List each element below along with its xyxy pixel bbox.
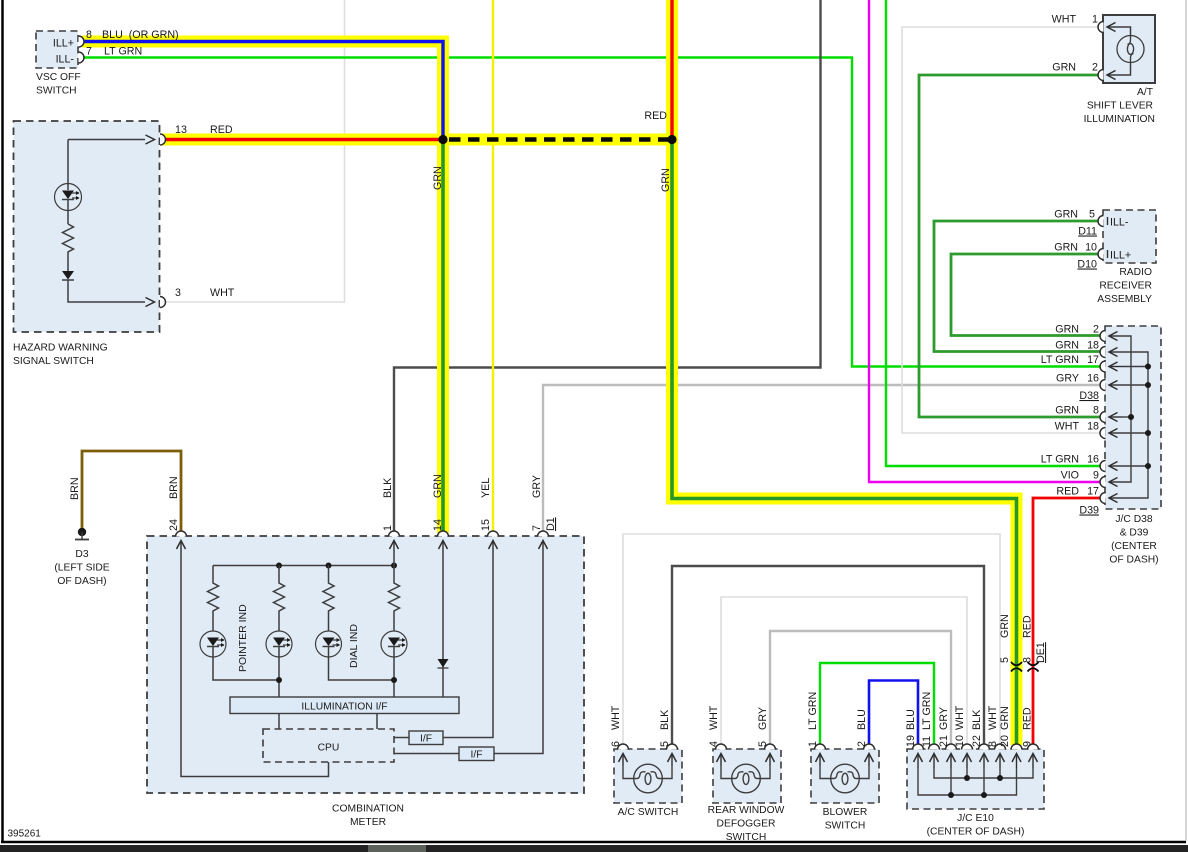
wire GRY defogger pin5 to E10 pin21 — [770, 631, 951, 745]
svg-text:D3: D3 — [75, 549, 88, 560]
ground D3 labels — [54, 549, 109, 587]
svg-text:WHT: WHT — [1052, 14, 1077, 26]
svg-text:CPU: CPU — [318, 743, 340, 754]
svg-text:BRN: BRN — [69, 477, 81, 500]
svg-text:18: 18 — [1087, 340, 1099, 352]
DE1 inline connector labels — [999, 614, 1047, 663]
CPU box — [263, 729, 394, 762]
svg-text:8: 8 — [987, 741, 999, 747]
svg-text:7: 7 — [531, 525, 543, 531]
svg-text:11: 11 — [921, 736, 933, 747]
svg-text:WHT: WHT — [610, 705, 622, 730]
VSC OFF SWITCH box — [36, 31, 78, 68]
svg-text:10: 10 — [954, 735, 966, 747]
switch component labels — [618, 805, 1025, 843]
svg-text:SHIFT LEVER: SHIFT LEVER — [1087, 101, 1153, 112]
E10 pin20 connector — [1011, 744, 1022, 768]
A/C pin5 connector — [667, 744, 678, 766]
meter LED dial ind 2 — [381, 631, 407, 697]
hazard pin3 connector — [146, 297, 166, 308]
svg-text:SIGNAL SWITCH: SIGNAL SWITCH — [13, 356, 94, 367]
I/F box 2 — [394, 747, 494, 761]
CONNECTORS — [79, 22, 1123, 769]
wire label GRN pin14 — [432, 474, 444, 531]
svg-text:D39: D39 — [1079, 505, 1099, 517]
svg-text:BLOWER: BLOWER — [823, 807, 868, 818]
D38 pin18w connector — [1100, 428, 1122, 439]
svg-text:DE1: DE1 — [1035, 642, 1047, 663]
svg-text:ILL+: ILL+ — [1110, 250, 1131, 262]
svg-text:GRN: GRN — [432, 474, 444, 498]
meter pin15 internal wire — [443, 554, 493, 738]
svg-text:8: 8 — [1022, 657, 1034, 663]
meter pin24 internal wire — [181, 554, 329, 777]
svg-text:RED: RED — [210, 124, 233, 136]
wire core RED hazard pin13 — [162, 138, 443, 141]
svg-text:D11: D11 — [1078, 226, 1097, 238]
svg-text:RED: RED — [1022, 707, 1034, 730]
wire BLK A/C pin5 to E10 pin22 — [672, 566, 984, 745]
svg-text:395261: 395261 — [8, 829, 42, 840]
VSC pin8 connector — [79, 36, 85, 47]
A/C pin6 connector — [618, 744, 629, 766]
svg-text:A/C SWITCH: A/C SWITCH — [618, 807, 679, 818]
svg-text:& D39: & D39 — [1120, 528, 1149, 539]
svg-text:GRN: GRN — [1054, 242, 1078, 254]
svg-text:DIAL IND: DIAL IND — [348, 624, 360, 668]
svg-text:24: 24 — [168, 519, 180, 531]
svg-text:GRY: GRY — [1056, 373, 1079, 385]
wire label BRN ground — [69, 477, 81, 500]
svg-text:20: 20 — [999, 735, 1011, 747]
A/T shift lever labels — [1052, 14, 1155, 126]
inline connector DE1 on RED wire — [1028, 662, 1039, 672]
svg-text:VSC OFF: VSC OFF — [36, 72, 81, 83]
svg-text:BLU: BLU — [905, 709, 917, 730]
svg-text:17: 17 — [1087, 354, 1099, 366]
defogger pin4 connector — [716, 744, 727, 766]
A/C bulb — [623, 764, 672, 793]
E10 pin8 connector — [995, 744, 1006, 768]
D38 pin16 connector — [1100, 380, 1122, 391]
svg-text:10: 10 — [1085, 242, 1097, 254]
hazard LED D1 — [55, 140, 82, 225]
svg-text:RED: RED — [1056, 486, 1079, 498]
svg-text:GRY: GRY — [757, 707, 769, 730]
svg-text:WHT: WHT — [987, 705, 999, 730]
svg-text:RADIO: RADIO — [1119, 267, 1152, 278]
svg-text:LT GRN: LT GRN — [104, 46, 142, 58]
svg-text:22: 22 — [971, 735, 983, 747]
E10 internal bus 2 — [918, 768, 1017, 798]
TRACE — [82, 0, 1017, 745]
wire GRN A/T pin2 to JC D38 pin8 — [919, 75, 1101, 417]
JC D38 row labels — [1041, 324, 1099, 517]
hazard diode — [62, 271, 145, 302]
COMBINATION METER box — [147, 536, 584, 793]
E10 pin19 connector — [913, 744, 924, 768]
svg-text:YEL: YEL — [480, 478, 492, 498]
blower pin2 connector — [864, 744, 875, 766]
svg-text:1: 1 — [807, 741, 819, 747]
svg-text:1: 1 — [1092, 14, 1098, 26]
wire WHT hazard pin3 to top of page — [162, 0, 345, 302]
wire WHT A/T pin1 to JC D38 WHT pin18 — [902, 27, 1101, 433]
svg-text:GRN: GRN — [432, 166, 444, 190]
A/T SHIFT LEVER ILLUMINATION box — [1103, 15, 1155, 83]
svg-text:14: 14 — [432, 519, 444, 531]
svg-text:9: 9 — [1093, 470, 1099, 482]
svg-text:LT GRN: LT GRN — [807, 692, 819, 730]
svg-text:I/F: I/F — [470, 750, 482, 761]
wire LT GRN blower pin1 to E10 pin11 — [820, 663, 934, 745]
svg-text:WHT: WHT — [210, 287, 235, 299]
svg-text:SWITCH: SWITCH — [36, 86, 77, 97]
svg-text:D10: D10 — [1077, 259, 1097, 271]
svg-text:6: 6 — [610, 741, 622, 747]
E10 left pin labels — [905, 692, 999, 747]
meter pin14 connector — [438, 531, 449, 554]
svg-text:POINTER IND: POINTER IND — [237, 604, 249, 672]
VSC pin7 connector — [79, 52, 85, 63]
svg-text:BLK: BLK — [659, 709, 671, 730]
meter pin1 connector — [389, 531, 400, 554]
D38 D39 internal bus B — [1122, 352, 1151, 498]
wire label GRN trunk2 — [660, 168, 672, 192]
wire BLU blower pin2 to E10 pin19 — [869, 681, 918, 746]
combination meter label — [332, 804, 404, 829]
wire LT GRN top of page to JC D38 pin16b — [886, 0, 1101, 466]
meter pin7 internal wire — [494, 554, 543, 754]
blower pin1 connector — [815, 744, 826, 766]
svg-text:GRY: GRY — [531, 475, 543, 498]
hazard pin13 connector — [146, 134, 166, 145]
svg-text:A/T: A/T — [1137, 87, 1154, 98]
svg-text:OF DASH): OF DASH) — [57, 576, 106, 587]
svg-text:3: 3 — [175, 287, 181, 299]
svg-text:8: 8 — [1093, 405, 1099, 417]
svg-text:8: 8 — [86, 29, 92, 41]
wire BLK meter pin1 to top of page — [394, 0, 821, 533]
junction node B — [667, 135, 676, 144]
svg-text:9: 9 — [1022, 741, 1034, 747]
REAR WINDOW DEFOGGER SWITCH box — [713, 749, 781, 803]
wire core GRN trunk to E10 pin20 — [672, 140, 1017, 746]
A/T bulb internal wires — [1118, 27, 1131, 75]
svg-text:21: 21 — [938, 735, 950, 747]
wire LT GRN VSC pin7 to JC D38 pin17 — [82, 58, 1101, 367]
svg-text:ASSEMBLY: ASSEMBLY — [1097, 294, 1152, 305]
svg-text:15: 15 — [480, 519, 492, 531]
svg-text:17: 17 — [1087, 486, 1099, 498]
wire GRN radio D11 to JC D38 pin18 — [934, 221, 1101, 352]
svg-text:D1: D1 — [545, 517, 557, 531]
meter pin15 connector — [488, 531, 499, 554]
svg-text:WHT: WHT — [1055, 421, 1080, 433]
VSC OFF SWITCH labels — [36, 29, 179, 97]
wire GRN radio D10 to JC D38 pin2 — [951, 254, 1101, 336]
D39 pin17 connector — [1100, 493, 1122, 504]
D39 pin16 connector — [1100, 461, 1122, 472]
svg-text:SWITCH: SWITCH — [726, 832, 767, 843]
svg-text:WHT: WHT — [954, 705, 966, 730]
svg-text:LT GRN: LT GRN — [1041, 454, 1079, 466]
combination meter top bus — [213, 563, 397, 569]
radio pin D11 connector — [1098, 216, 1108, 227]
svg-text:13: 13 — [175, 124, 187, 136]
svg-text:ILLUMINATION: ILLUMINATION — [1084, 114, 1155, 125]
wire label BLK pin1 — [382, 477, 394, 531]
E10 pin20 pin9 labels — [999, 706, 1034, 747]
svg-text:1: 1 — [382, 525, 394, 531]
svg-text:GRN: GRN — [999, 614, 1011, 638]
combination meter internal labels — [237, 604, 483, 761]
svg-text:J/C D38: J/C D38 — [1115, 514, 1152, 525]
meter pin7 connector — [538, 531, 549, 554]
svg-text:COMBINATION: COMBINATION — [332, 804, 404, 815]
THINWIRES — [82, 0, 1101, 745]
A/T bulb — [1117, 36, 1144, 63]
hazard switch labels — [13, 124, 235, 367]
E10 pin9 connector — [1028, 744, 1039, 768]
highlight band RED wire hazard pin13 — [162, 134, 443, 146]
svg-text:D38: D38 — [1079, 390, 1099, 402]
svg-text:RED: RED — [1022, 615, 1034, 638]
svg-text:BLU (OR GRN): BLU (OR GRN) — [102, 29, 179, 41]
JC D38 D39 component label — [1109, 514, 1158, 566]
svg-text:WHT: WHT — [708, 705, 720, 730]
dashed wire link junction — [449, 137, 668, 142]
svg-text:GRN: GRN — [1055, 340, 1079, 352]
svg-text:BRN: BRN — [168, 476, 180, 499]
svg-text:I/F: I/F — [420, 734, 432, 745]
D38 pin17 connector — [1100, 361, 1122, 372]
svg-text:BLK: BLK — [971, 709, 983, 730]
svg-text:RECEIVER: RECEIVER — [1099, 281, 1152, 292]
E10 internal bus 1 — [934, 768, 1033, 781]
meter resistor R1 — [208, 566, 219, 632]
radio pin D10 connector — [1098, 249, 1108, 260]
svg-text:GRN: GRN — [1055, 324, 1079, 336]
svg-text:19: 19 — [905, 735, 917, 747]
wire label GRY pin7 — [531, 475, 557, 531]
wire VIO top of page to JC D38 pin9 — [869, 0, 1101, 482]
svg-text:REAR WINDOW: REAR WINDOW — [708, 805, 785, 816]
svg-text:LT GRN: LT GRN — [1041, 354, 1079, 366]
svg-text:GRY: GRY — [938, 707, 950, 730]
E10 pin21 connector — [946, 744, 957, 768]
svg-text:GRN: GRN — [999, 706, 1011, 730]
inline connector DE1 on GRN trunk — [1011, 662, 1022, 672]
svg-text:OF DASH): OF DASH) — [1109, 555, 1158, 566]
svg-text:RED: RED — [644, 110, 667, 122]
wire core GRN trunk meter pin14 — [441, 140, 445, 534]
wire RED JC D39 pin17 to JC E10 pin9 — [1033, 498, 1101, 745]
meter resistor R3 — [323, 566, 334, 632]
svg-text:4: 4 — [708, 741, 720, 747]
defogger bulb — [721, 764, 770, 793]
svg-text:ILLUMINATION I/F: ILLUMINATION I/F — [301, 702, 387, 713]
svg-text:(LEFT SIDE: (LEFT SIDE — [54, 563, 109, 574]
defogger pin5 connector — [765, 744, 776, 766]
svg-text:BLK: BLK — [382, 477, 394, 498]
wire label RED trunk2 — [644, 110, 667, 122]
wire label BRN pin24 — [168, 476, 180, 531]
I/F box 1 — [394, 731, 443, 745]
meter LED pointer ind 1 — [200, 631, 279, 680]
svg-text:ILL+: ILL+ — [53, 38, 74, 50]
wire GRY meter pin7 to JC D38 pin16 — [543, 385, 1101, 533]
D38 pin18 connector — [1100, 347, 1122, 358]
switch wire labels — [610, 692, 868, 747]
svg-text:METER: METER — [350, 817, 386, 828]
wires ILLUMINATION I/F to CPU — [279, 714, 377, 730]
svg-text:ILL-: ILL- — [1110, 217, 1129, 229]
svg-text:2: 2 — [1093, 324, 1099, 336]
svg-text:HAZARD WARNING: HAZARD WARNING — [13, 343, 108, 354]
highlight band RED-GRN trunk to E10 pin20 — [672, 0, 1017, 745]
E10 pin11 connector — [929, 744, 940, 768]
svg-text:5: 5 — [1089, 209, 1095, 221]
svg-text:J/C E10: J/C E10 — [957, 813, 994, 824]
ground D3 symbol — [75, 528, 89, 540]
meter LED pointer ind 2 — [266, 631, 292, 697]
svg-text:(CENTER: (CENTER — [1111, 541, 1157, 552]
wire YEL top of page to meter pin15 — [492, 0, 494, 533]
A/T pin2 connector — [1098, 70, 1118, 81]
svg-text:VIO: VIO — [1061, 470, 1079, 482]
svg-text:16: 16 — [1087, 454, 1099, 466]
highlight band dashed link — [443, 134, 672, 146]
D38 D39 internal bus A — [1122, 336, 1134, 482]
meter pin24 connector — [176, 531, 187, 554]
BLOWER SWITCH box — [811, 749, 879, 803]
wire label YEL pin15 — [480, 478, 492, 531]
wire core BLU VSC pin8 — [82, 42, 443, 140]
E10 pin10 connector — [962, 744, 973, 768]
svg-text:GRN: GRN — [1054, 209, 1078, 221]
ILLUMINATION I/F box — [230, 697, 459, 714]
svg-text:5: 5 — [999, 657, 1011, 663]
svg-text:GRN: GRN — [1052, 62, 1076, 74]
wire WHT defogger pin4 to E10 pin10 — [721, 597, 967, 745]
svg-text:2: 2 — [1092, 62, 1098, 74]
svg-text:18: 18 — [1087, 421, 1099, 433]
D38 pin8 connector — [1100, 412, 1122, 423]
D39 pin9 connector — [1100, 477, 1122, 488]
meter resistor R2 — [274, 566, 285, 632]
wire label GRN trunk1 — [432, 166, 444, 190]
wire core RED top of page — [670, 0, 673, 140]
meter pin14 internal wire with diode — [438, 554, 449, 697]
svg-text:GRN: GRN — [1055, 405, 1079, 417]
A/C SWITCH box — [614, 749, 682, 803]
svg-text:LT GRN: LT GRN — [921, 692, 933, 730]
E10 pin22 connector — [979, 744, 990, 768]
svg-text:16: 16 — [1087, 373, 1099, 385]
svg-text:BLU: BLU — [856, 709, 868, 730]
svg-text:(CENTER OF DASH): (CENTER OF DASH) — [927, 827, 1025, 838]
J/C D38 D39 box — [1105, 326, 1161, 509]
svg-text:5: 5 — [659, 741, 671, 747]
svg-text:DEFOGGER: DEFOGGER — [717, 819, 776, 830]
junction node A — [438, 135, 447, 144]
svg-text:GRN: GRN — [660, 168, 672, 192]
blower bulb — [820, 764, 869, 793]
hazard resistor — [63, 224, 74, 271]
RADIO RECEIVER ASSEMBLY box — [1103, 210, 1156, 263]
svg-text:2: 2 — [856, 741, 868, 747]
svg-text:7: 7 — [86, 46, 92, 58]
meter resistor R4 — [389, 554, 400, 631]
wire WHT A/C pin6 to E10 pin8 — [623, 534, 1000, 745]
svg-text:ILL-: ILL- — [56, 54, 75, 66]
svg-text:SWITCH: SWITCH — [825, 821, 866, 832]
HAZARD WARNING SIGNAL SWITCH box — [14, 121, 160, 332]
radio receiver labels — [1054, 209, 1152, 306]
hazard internal wire pin13 — [68, 139, 145, 141]
wire BRN ground D3 to meter pin24 — [82, 451, 181, 533]
D38 pin2 connector — [1100, 331, 1122, 342]
svg-text:5: 5 — [757, 741, 769, 747]
J/C E10 box — [907, 749, 1044, 809]
meter LED dial ind 1 — [316, 631, 395, 680]
A/T pin1 connector — [1098, 22, 1118, 33]
highlight band BLU wire VSC pin8 — [82, 42, 449, 534]
